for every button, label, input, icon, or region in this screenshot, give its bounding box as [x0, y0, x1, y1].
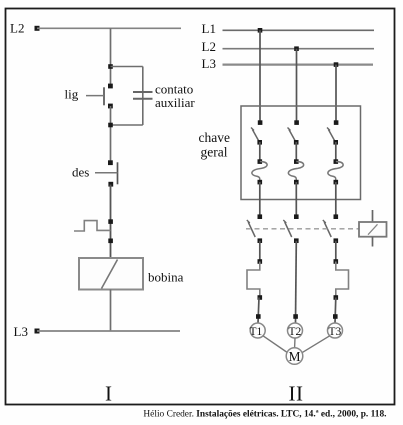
wire auxiliary branch right vertical: [142, 67, 144, 126]
tap dot on L3: [334, 62, 339, 67]
motor terminal T3 circle: [328, 323, 343, 338]
node L3 (left circuit) label: [14, 324, 28, 339]
wire auxiliary branch top horizontal: [111, 66, 143, 68]
svg-text:I: I: [105, 382, 112, 406]
pushbutton des: actuator lead: [95, 172, 118, 174]
overload heater phase 3 bump: [336, 262, 349, 298]
pushbutton lig: bottom terminal dot: [108, 104, 113, 109]
switch chave geral box: [241, 106, 361, 200]
overload heater phase 3 dot top: [334, 259, 339, 264]
wire phase 3 to overload heater: [335, 241, 337, 262]
terminal dot above T3: [333, 314, 338, 319]
svg-text:chave: chave: [199, 130, 230, 145]
wire drop phase 2 into switch: [296, 49, 298, 123]
terminal dot above T2: [293, 314, 298, 319]
svg-text:auxiliar: auxiliar: [155, 95, 195, 110]
wire drop phase 1 into switch: [259, 30, 261, 122]
pushbutton lig: top terminal dot: [108, 84, 113, 89]
phase wire L2: [223, 48, 375, 50]
svg-text:L2: L2: [10, 21, 24, 36]
wire T3 to motor: [302, 336, 330, 353]
overload heater phase 1 dot top: [258, 259, 263, 264]
svg-text:T2: T2: [289, 326, 302, 338]
svg-text:des: des: [72, 165, 89, 180]
overload contact upper dot: [108, 219, 113, 224]
tap dot on L2: [294, 46, 299, 51]
node L3 terminal dot: [35, 329, 40, 334]
citation text: [143, 410, 386, 420]
overload contact square bump symbol: [74, 221, 111, 231]
wire T2 to motor: [294, 338, 296, 348]
svg-text:geral: geral: [201, 145, 228, 160]
wire main vertical from des to bobina: [110, 185, 112, 259]
phase wire L3: [223, 63, 374, 65]
svg-text:M: M: [289, 349, 301, 364]
wire phase 1 to T1: [258, 298, 259, 324]
label II (diagram two): [289, 382, 304, 406]
label I (diagram one): [105, 382, 112, 406]
contact contato auxiliar (capacitor-style bars): [133, 92, 153, 99]
node L1 (right circuit) label: [202, 21, 216, 36]
node L2 terminal dot: [35, 26, 40, 31]
wire main vertical between lig and des: [110, 106, 112, 163]
wire auxiliary branch bottom horizontal: [111, 124, 143, 126]
wire T1 to motor: [263, 336, 287, 353]
svg-text:T1: T1: [250, 326, 263, 338]
wire phase 1 to overload heater: [259, 241, 261, 262]
coil bobina diagonal: [102, 260, 118, 289]
contactor contact phase 2: [283, 214, 298, 243]
pushbutton lig: actuator lead: [86, 95, 104, 97]
motor terminal T1 circle: [250, 323, 265, 338]
wire phase 2 straight down: [295, 241, 298, 323]
contactor coil box: [359, 222, 387, 237]
wire phase 3 to T3: [334, 298, 337, 324]
svg-text:lig: lig: [65, 86, 79, 101]
contactor contact phase 3: [323, 214, 338, 243]
pushbutton des: contact bar: [117, 162, 119, 184]
motor terminal T2 circle: [288, 323, 303, 338]
svg-text:L1: L1: [202, 21, 216, 36]
overload heater phase 1 dot bottom: [258, 295, 263, 300]
contactor coil diagonal: [368, 224, 378, 234]
svg-text:II: II: [289, 382, 304, 406]
contactor contact phase 1: [247, 214, 262, 243]
overload heater phase 1 bump: [247, 262, 260, 298]
switch pole 1 (chave geral): [251, 120, 267, 216]
node junction dot bottom of auxiliary branch: [108, 123, 113, 128]
wire L3 horizontal: [37, 330, 180, 332]
contactor coil lower stub: [372, 237, 374, 247]
svg-text:L3: L3: [202, 56, 216, 71]
phase wire L1: [223, 29, 375, 31]
label chave geral: [199, 130, 230, 160]
svg-text:bobina: bobina: [148, 270, 184, 285]
overload contact lower dot: [108, 239, 113, 244]
label bobina: [148, 270, 184, 285]
switch pole 3 (chave geral): [327, 120, 343, 216]
label lig: [65, 86, 79, 101]
wire main vertical segment from L2 to branch junction: [110, 28, 112, 86]
wire L2 horizontal: [37, 27, 181, 29]
mechanical linkage dashed line: [246, 228, 359, 230]
node junction dot top of auxiliary branch: [108, 64, 113, 69]
overload heater phase 3 dot bottom: [334, 295, 339, 300]
svg-text:L3: L3: [14, 324, 28, 339]
node L2 (right circuit) label: [202, 39, 216, 54]
terminal dot above T1: [256, 314, 261, 319]
contactor coil upper stub: [372, 210, 374, 222]
node L2 (left circuit) label: [10, 21, 24, 36]
svg-text:T3: T3: [329, 326, 342, 338]
wire main vertical from bobina to L3: [110, 290, 112, 332]
wire drop phase 3 into switch: [335, 65, 337, 123]
pushbutton lig: contact bar: [103, 87, 105, 105]
svg-text:Hélio Creder. Instalações elét: Hélio Creder. Instalações elétricas. LTC…: [143, 410, 386, 420]
motor M circle: [286, 348, 303, 365]
switch pole 2 (chave geral): [288, 120, 304, 216]
label des: [72, 165, 89, 180]
tap dot on L1: [258, 28, 263, 33]
node L3 (right circuit) label: [202, 56, 216, 71]
label contato auxiliar: [155, 82, 195, 111]
pushbutton des: top terminal dot: [108, 160, 113, 165]
pushbutton des: bottom terminal dot: [108, 182, 113, 187]
svg-text:L2: L2: [202, 39, 216, 54]
coil bobina rectangle: [79, 258, 143, 290]
